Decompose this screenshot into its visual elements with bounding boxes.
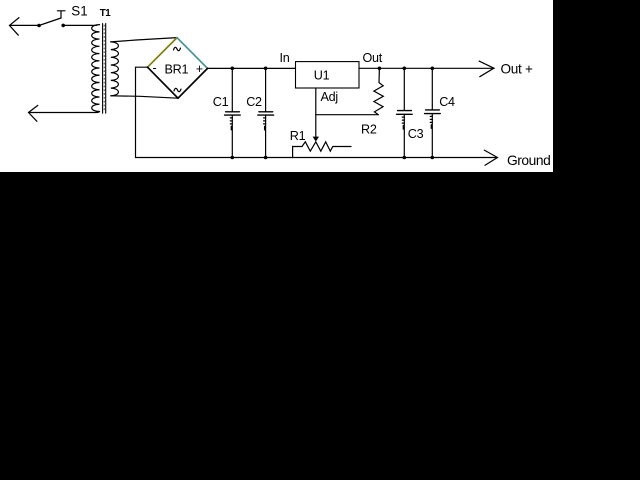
capacitor C1	[225, 68, 241, 157]
node C3 bottom	[403, 156, 407, 160]
AC input arrow top (line terminal)	[10, 18, 40, 36]
node C2 top	[264, 67, 268, 71]
node C1 bottom	[231, 156, 235, 160]
svg-text:Out: Out	[363, 51, 383, 65]
transformer T1 secondary winding	[111, 42, 119, 96]
capacitor C3	[397, 68, 413, 157]
svg-text:In: In	[280, 51, 290, 65]
svg-text:-: -	[153, 61, 157, 75]
potentiometer R1	[293, 142, 351, 158]
svg-text:C4: C4	[439, 95, 455, 109]
svg-text:R1: R1	[290, 129, 306, 143]
ground arrow	[484, 150, 497, 165]
wire secondary bottom to bridge AC2	[111, 96, 178, 98]
AC input arrow bottom (line terminal)	[29, 105, 38, 121]
svg-text:C2: C2	[246, 95, 262, 109]
wire U1 Out to output arrow	[359, 67, 494, 69]
node C1 top	[231, 67, 235, 71]
output arrow Out+	[479, 61, 494, 77]
node C4 bottom	[431, 156, 435, 160]
BR1 AC tilde top	[174, 47, 181, 50]
svg-text:Ground: Ground	[507, 153, 550, 168]
ground rail wire	[136, 157, 498, 159]
wire Adj to R2 bottom	[316, 114, 379, 116]
svg-text:+: +	[196, 62, 203, 76]
wire bridge minus to ground rail	[136, 67, 148, 157]
potentiometer wiper arrow	[313, 137, 319, 142]
svg-text:C3: C3	[408, 127, 424, 141]
capacitor C2	[258, 68, 274, 157]
BR1 AC tilde bottom	[174, 88, 181, 91]
transformer T1 core	[103, 24, 106, 114]
node C4 top	[431, 67, 435, 71]
wire bridge plus to U1 In	[208, 67, 296, 69]
wire from arrow to switch	[10, 24, 40, 26]
svg-text:T1: T1	[100, 8, 111, 19]
svg-text:S1: S1	[71, 3, 87, 18]
node C3 top	[403, 67, 407, 71]
transformer T1 primary winding	[92, 25, 100, 113]
svg-text:BR1: BR1	[165, 63, 189, 77]
regulator U1	[296, 62, 360, 88]
svg-text:C1: C1	[213, 95, 229, 109]
wire secondary top to bridge AC1	[111, 38, 177, 42]
wire switch to transformer primary	[63, 24, 96, 26]
switch S1	[37, 11, 65, 28]
node R2 top	[378, 67, 382, 71]
wire primary bottom to AC arrow	[29, 112, 97, 114]
wire U1 Adj down	[315, 88, 317, 137]
node C2 bottom	[264, 156, 268, 160]
svg-text:Adj: Adj	[321, 90, 338, 104]
svg-text:Out +: Out +	[501, 62, 533, 77]
resistor R2	[374, 68, 383, 114]
bridge rectifier BR1	[148, 38, 208, 99]
svg-text:U1: U1	[314, 68, 330, 82]
capacitor C4	[425, 68, 441, 157]
svg-text:R2: R2	[361, 122, 377, 136]
